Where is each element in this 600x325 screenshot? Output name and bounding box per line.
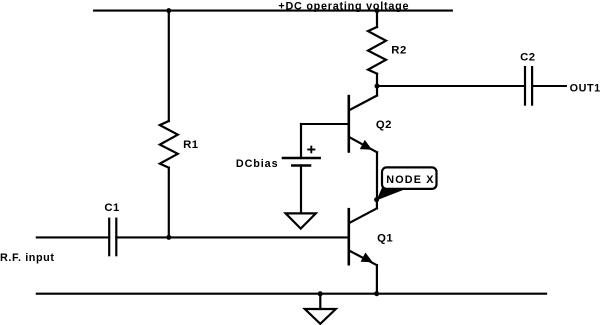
svg-text:DCbias: DCbias — [236, 158, 279, 170]
svg-text:C2: C2 — [520, 52, 535, 64]
svg-text:R1: R1 — [183, 139, 198, 151]
svg-text:NODE X: NODE X — [386, 174, 434, 186]
svg-text:+DC operating voltage: +DC operating voltage — [278, 0, 409, 12]
svg-text:C1: C1 — [104, 202, 119, 214]
svg-text:OUT1: OUT1 — [570, 82, 600, 94]
svg-text:R2: R2 — [391, 45, 406, 57]
svg-text:Q1: Q1 — [377, 233, 393, 245]
svg-text:Q2: Q2 — [376, 119, 392, 131]
svg-text:R.F. input: R.F. input — [0, 252, 55, 264]
